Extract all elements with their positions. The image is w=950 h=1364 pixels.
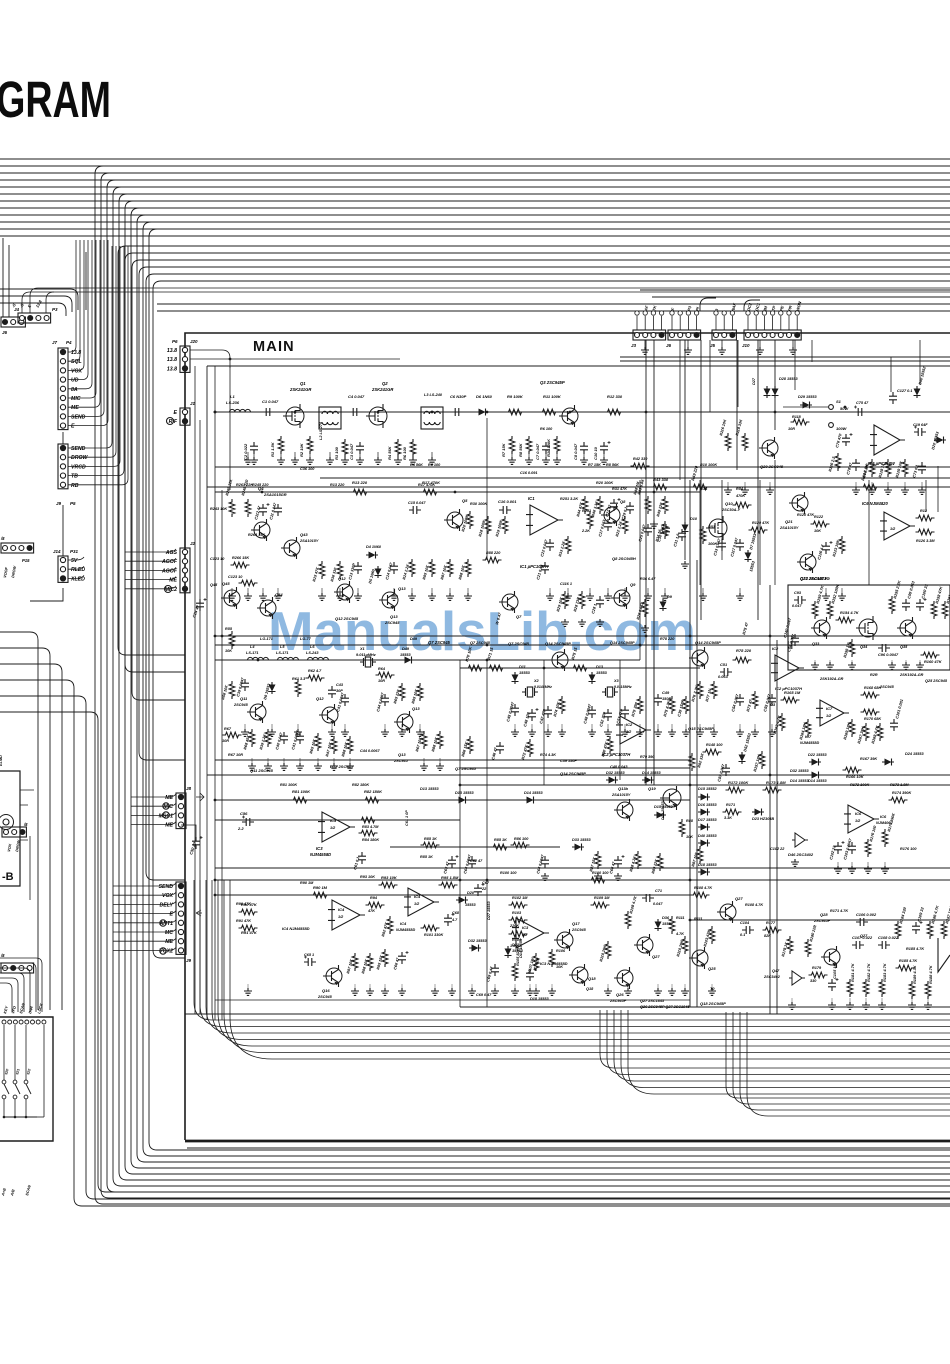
capacitor C126 4.7 [822, 542, 830, 554]
resistor R88 10K [465, 559, 471, 577]
wire horizontal above MAIN 4 [157, 310, 950, 312]
diode D14c 15553 [809, 772, 821, 779]
resistor R122 10K [811, 521, 830, 527]
wire top bus line 6 [0, 193, 950, 195]
svg-text:C30 0.047: C30 0.047 [657, 523, 666, 542]
svg-text:Q8: Q8 [620, 499, 626, 504]
resistor R61 3.3 [295, 679, 301, 697]
resistor R125 3.3M [916, 529, 935, 535]
ground Q28 block [908, 1002, 916, 1009]
wire long horizontal y=760 [215, 759, 690, 761]
wire top bus line 7 [0, 200, 950, 202]
wire mid vertical bus 1 [118, 254, 185, 655]
resistor R102 1M [509, 902, 528, 908]
wire vertical drop from top connector x=701 [700, 340, 702, 620]
wire stub to ground row C [419, 724, 421, 731]
svg-text:Q45: Q45 [210, 583, 218, 587]
wire from J20 pin 2 [190, 358, 400, 360]
capacitor C66b 47 [614, 856, 622, 868]
svg-text:DN4: DN4 [28, 1005, 34, 1014]
transistor Q12b 2SC945 [322, 707, 338, 723]
junction at 222,636 [221, 635, 224, 638]
svg-text:2SC945: 2SC945 [879, 685, 895, 689]
svg-text:J8: J8 [186, 786, 192, 791]
resistor R98 390 [869, 459, 875, 477]
svg-text:C102 22: C102 22 [770, 847, 785, 851]
ground row E [398, 988, 406, 995]
wire bundle into J2 pin 2 [125, 558, 176, 561]
svg-text:Q14 2SC945P: Q14 2SC945P [560, 771, 586, 776]
ground row E [468, 988, 476, 995]
wire stub to ground row A [397, 452, 399, 459]
ground fill A1 [541, 873, 549, 880]
wire stub to ground row C2 [423, 758, 425, 765]
wire stub to ground row C [713, 724, 715, 731]
wire left-edge bundle 6 to bottom bus [0, 712, 950, 1192]
wire stub ground Q28 block [927, 998, 929, 1004]
wire nested route 5 [218, 880, 950, 1046]
svg-text:C65 1: C65 1 [304, 953, 314, 957]
svg-text:R100 100: R100 100 [500, 871, 517, 875]
svg-text:R92 33K: R92 33K [697, 752, 705, 768]
resistor R49c 220 [662, 496, 668, 514]
wire stub to ground row B [647, 588, 649, 595]
wire long horizontal y=636 [215, 635, 950, 637]
wire nested route lower right 1 [726, 1012, 950, 1098]
svg-text:Q17: Q17 [572, 921, 580, 926]
capacitor C104 0.1 [742, 926, 754, 934]
wire stub to ground row B [277, 588, 279, 595]
terminal circle above connector J10 pin 2 [754, 311, 758, 315]
svg-text:R177: R177 [766, 921, 776, 925]
op-amp IC4 NJM4558D b [408, 888, 434, 916]
svg-text:Q22 2SC1571G: Q22 2SC1571G [800, 576, 831, 581]
diode D40 15553 [698, 840, 710, 847]
svg-text:R36 330: R36 330 [330, 566, 338, 582]
resistor R124 3.3M [916, 515, 935, 521]
diode D5 1N60 [375, 566, 382, 578]
terminal circle above connector J5 pin 1 [714, 311, 718, 315]
wire stub ground row E [401, 984, 403, 990]
transistor Q27 2SC945 [637, 937, 653, 953]
capacitor C63 47 [448, 856, 456, 868]
wire stub to ground row A [280, 452, 282, 459]
resistor R161 47K [942, 601, 948, 619]
svg-text:A+B: A+B [1, 1188, 7, 1198]
svg-text:Q26: Q26 [616, 992, 624, 997]
wire stub ground IC6 area [884, 862, 886, 868]
svg-text:C24 47: C24 47 [191, 604, 200, 619]
svg-text:LG-171: LG-171 [260, 637, 273, 641]
ground row B [604, 593, 612, 600]
svg-text:R91 47K: R91 47K [241, 930, 258, 935]
ground Q28 block [788, 1002, 796, 1009]
capacitor C3 0.047 [356, 442, 364, 454]
ground row A [277, 457, 285, 464]
IF transformer L2 LS-270 [319, 407, 341, 429]
jack symbol at J9 ANT1 pin [160, 920, 166, 926]
resistor R88b 220 [483, 557, 502, 563]
svg-text:R93 10K: R93 10K [360, 875, 375, 879]
svg-text:C49: C49 [662, 690, 670, 695]
svg-text:Q47: Q47 [772, 969, 780, 973]
wire left-edge bundle 3 [0, 664, 62, 1010]
buffer transistor Q46 2SC3402 [792, 833, 808, 847]
resistor R178 1K [787, 936, 793, 954]
ground row C [398, 729, 406, 736]
ground under top connector row [789, 347, 797, 354]
wire bundle into lower J9 pin 3 [113, 901, 176, 904]
block outline Q22 2SC1571G [788, 585, 950, 670]
svg-text:R81 100K: R81 100K [292, 789, 311, 794]
svg-text:R11 100K: R11 100K [543, 394, 562, 399]
svg-text:C123 10: C123 10 [210, 557, 225, 561]
resistor R181 4.7K [847, 979, 853, 997]
svg-text:R3 100: R3 100 [334, 446, 339, 460]
resistor R88c 10K [437, 731, 443, 749]
wire nested route 3 [206, 880, 950, 1033]
wire top bus line 9 [0, 214, 950, 216]
svg-text:Q2: Q2 [382, 381, 388, 386]
svg-text:MIC: MIC [71, 396, 81, 402]
resistor R95c 1.8M [439, 882, 458, 888]
svg-text:L4: L4 [250, 645, 255, 649]
svg-text:C17 0.043: C17 0.043 [598, 518, 607, 537]
svg-text:R102 1M: R102 1M [512, 896, 528, 900]
wire long horizontal y=775 [207, 774, 950, 776]
junction dot at 570,412 [569, 411, 572, 414]
wire pin stub connector J5 pin 1 [715, 316, 717, 330]
ground row A [356, 457, 364, 464]
svg-text:C14 0.047: C14 0.047 [385, 561, 394, 580]
svg-text:R55: R55 [225, 627, 233, 631]
transistor Q20 2SC945 [762, 440, 778, 456]
resistor R188 4.7K [925, 981, 931, 999]
wire inner bottom line 1 [185, 1013, 950, 1015]
svg-text:Q33: Q33 [812, 642, 820, 646]
wire stub to ground row C [297, 724, 299, 731]
ground row E [526, 988, 534, 995]
svg-text:R92 47K: R92 47K [381, 921, 389, 937]
svg-text:2SC945: 2SC945 [384, 620, 400, 625]
ground row C2 [248, 763, 256, 770]
svg-text:2SC945: 2SC945 [317, 995, 333, 999]
wire stub to ground row A [412, 452, 414, 459]
wire inner RF strip left border [206, 366, 208, 598]
resistor R73 15 [571, 665, 590, 671]
wire stub ground Q22 block [814, 660, 816, 664]
capacitor C69 0.47 [491, 964, 499, 976]
ground row C [621, 729, 629, 736]
wire into switch panel 3 [0, 968, 30, 1012]
resistor R62 4.7 [306, 675, 325, 681]
terminal circle above connector J3 pin 1 [635, 311, 639, 315]
junction switch rail 2 [14, 1116, 17, 1119]
ground row A [600, 457, 608, 464]
resistor R106 10K [549, 949, 555, 967]
resistor R72 47K [527, 739, 533, 757]
ground row E [366, 988, 374, 995]
resistor R170 68K [861, 709, 880, 715]
svg-text:Q7 2SC945: Q7 2SC945 [455, 766, 477, 771]
wire mid vertical bus 4 [139, 275, 185, 760]
wire stub to ground row A [528, 452, 530, 459]
transistor Q13c 2SA1015Y [617, 802, 633, 818]
svg-text:R4 56K: R4 56K [387, 445, 392, 460]
wire inner-left vertical 2 [199, 420, 201, 1014]
ground row A [341, 457, 349, 464]
wire right vertical x=891 [890, 357, 892, 392]
svg-text:R30 100K: R30 100K [470, 502, 487, 506]
wire pin stub connector J6 (top row) pin 3 [687, 316, 689, 330]
resistor R74 10K [559, 696, 565, 714]
svg-text:C71: C71 [655, 889, 662, 893]
diode D49 15553 [402, 657, 414, 664]
terminal circle above connector J10 pin 3 [762, 311, 766, 315]
svg-text:R155 2.2K: R155 2.2K [892, 579, 902, 599]
capacitor C127 0.1 [889, 392, 897, 404]
connector J8 (small, left edge) [2, 827, 26, 837]
wire right vertical x=710 [709, 340, 711, 412]
diode D33 15553 [572, 844, 584, 851]
svg-text:SCAN: SCAN [25, 1185, 32, 1197]
wire stub ground IC6 area [867, 862, 869, 868]
resistor R1 1.5K [278, 436, 284, 454]
resistor R3 100 [342, 439, 348, 457]
wire pin stub connector J3 pin 3 [652, 316, 654, 330]
svg-text:2SK192A-GR: 2SK192A-GR [899, 673, 924, 677]
jack symbol at J9 VOX2 pin [160, 948, 166, 954]
svg-text:9.0115MHz: 9.0115MHz [614, 685, 632, 689]
svg-text:R120 47K: R120 47K [797, 513, 814, 517]
junction at 654,492 [653, 491, 656, 494]
ground Q28 block [878, 1002, 886, 1009]
wire stub to ground row B [247, 588, 249, 595]
wire stub ground Q28 block [865, 998, 867, 1004]
svg-text:Q7 2SC945: Q7 2SC945 [428, 640, 451, 645]
diode D16 15553 [698, 809, 710, 816]
ground row C [528, 729, 536, 736]
wire strong vertical x=777 [776, 640, 778, 1014]
ground Q28 block [862, 1002, 870, 1009]
resistor R9 100K [506, 409, 525, 415]
ground row A right [724, 487, 732, 494]
resistor R128 1K [885, 459, 891, 477]
connector P6 / J20 [180, 346, 190, 372]
svg-text:R90 1M: R90 1M [313, 885, 328, 890]
svg-text:C103 0.0047: C103 0.0047 [843, 837, 853, 860]
svg-text:Q13b: Q13b [618, 786, 629, 791]
svg-text:D20: D20 [467, 891, 475, 895]
wire rail to right rail [37, 1116, 44, 1118]
terminal circle above connector J3 pin 4 [659, 311, 663, 315]
wire long vertical x=215 [214, 366, 216, 1020]
wire row E line 1 [215, 894, 690, 896]
svg-text:S21: S21 [15, 1068, 20, 1075]
wire stub to ground row B [393, 588, 395, 595]
svg-text:P31: P31 [70, 549, 79, 554]
wire bundle into lower J9 pin 2 [113, 892, 176, 895]
svg-text:D29 15553: D29 15553 [798, 395, 817, 399]
ground Q22 block [902, 662, 910, 669]
svg-text:R67: R67 [224, 727, 232, 731]
svg-text:R62 4.7: R62 4.7 [308, 669, 322, 673]
capacitor C1 0.047 [262, 408, 274, 416]
ground row C [558, 729, 566, 736]
ground row E [668, 988, 676, 995]
resistor R86 100 [511, 842, 530, 848]
svg-text:R101 330K: R101 330K [424, 933, 443, 937]
svg-text:13.8: 13.8 [167, 357, 177, 363]
resistor R54 470K [733, 502, 752, 508]
svg-text:D11: D11 [519, 665, 526, 669]
svg-text:P3: P3 [52, 307, 58, 312]
ground IC6 area [834, 866, 842, 873]
wire stub ground row E [627, 984, 629, 990]
svg-text:AGRAM: AGRAM [0, 71, 111, 128]
capacitor C56 2.2 [242, 818, 254, 826]
svg-text:R126 3.3M: R126 3.3M [916, 539, 935, 543]
wire mid vertical bus 6 [153, 289, 185, 958]
wire long vertical x=460 [459, 660, 461, 800]
wire bundle into J8 pin 1 [131, 794, 176, 797]
resistor R71 15 [487, 665, 506, 671]
resistor R56 10K [229, 681, 235, 699]
svg-text:R179: R179 [812, 966, 822, 970]
wire horizontal y=1000 [215, 999, 690, 1001]
wire from J7 pin 6 rising fan [68, 240, 96, 398]
capacitor C105 10 [828, 979, 836, 991]
svg-text:D10: D10 [690, 517, 698, 521]
junction switch rail 3 [25, 1116, 28, 1119]
svg-text:D24 15553: D24 15553 [905, 752, 924, 756]
wire long horizontal y=645 [215, 644, 950, 646]
svg-text:R88 10K: R88 10K [341, 741, 349, 757]
capacitor C55 0.047 [768, 694, 776, 706]
wire stub to ground row A [344, 452, 346, 459]
wire from J7 pin 7 rising fan [68, 240, 100, 407]
svg-text:D13 15553: D13 15553 [420, 787, 439, 791]
ground row B [699, 593, 707, 600]
resistor R33 2.2K [565, 536, 571, 554]
svg-text:R180 22R: R180 22R [809, 924, 817, 942]
wire bundle into lower J9 pin 7 [113, 938, 176, 941]
svg-text:LG-77: LG-77 [300, 637, 312, 641]
resistor R8 56K [526, 436, 532, 454]
junction dot at 455,492 [454, 491, 457, 494]
diode D27 15553 [764, 386, 771, 398]
terminal circle above connector J5 pin 3 [730, 311, 734, 315]
svg-text:P15: P15 [22, 558, 30, 563]
junction dot at 690,785 [689, 784, 692, 787]
capacitor C53 47P [621, 706, 629, 718]
resistor R94 47K [366, 902, 385, 908]
svg-text:Q45: Q45 [222, 581, 230, 586]
svg-text:/8: /8 [0, 536, 5, 541]
transistor Q7 2SC945 [502, 594, 518, 610]
wire stub ground row E [514, 984, 516, 990]
svg-text:R156 1K: R156 1K [842, 641, 851, 658]
capacitor C76 470 [842, 434, 850, 446]
svg-text:R184 330: R184 330 [898, 906, 907, 924]
wire row D line 1 [215, 799, 690, 801]
svg-text:R6 100: R6 100 [402, 446, 407, 460]
svg-text:R2R: R2R [870, 673, 878, 677]
svg-text:R82 180K: R82 180K [364, 789, 383, 794]
svg-text:D18 15553: D18 15553 [698, 863, 717, 867]
svg-text:R188 4.7K: R188 4.7K [928, 964, 933, 984]
wire mid vertical bus 3 [132, 268, 185, 700]
svg-text:C75 47: C75 47 [856, 401, 869, 405]
junction dot at 460,785 [459, 784, 462, 787]
svg-text:R171 4.7K: R171 4.7K [830, 909, 848, 913]
terminal circle above connector J3 pin 2 [643, 311, 647, 315]
svg-text:R12: R12 [920, 509, 928, 513]
svg-text:C16 0.001: C16 0.001 [498, 499, 517, 504]
wire strong vertical x=697 [696, 560, 698, 1007]
svg-text:AGOF: AGOF [161, 568, 178, 574]
resistor R164 10K [805, 719, 811, 737]
wire nested route lower right 2 [733, 1012, 950, 1104]
diode D18 15553 [698, 869, 710, 876]
capacitor C46 47 [496, 742, 504, 754]
capacitor C47 47P [544, 706, 552, 718]
resistor R118 10K [791, 419, 810, 425]
resistor R68b 10K [347, 736, 353, 754]
junction dot at 775,412 [774, 411, 777, 414]
svg-text:22: 22 [481, 887, 487, 891]
resistor R171 3.3K [723, 809, 742, 815]
ground row C2 [264, 763, 272, 770]
svg-text:Q16: Q16 [322, 988, 330, 993]
ground Q22 block [916, 662, 924, 669]
resistor R67 10R [223, 732, 242, 738]
wire stub ground Q28 block [881, 998, 883, 1004]
svg-text:RLED: RLED [71, 567, 85, 573]
resistor R129 10K [902, 459, 908, 477]
svg-text:L1: L1 [230, 394, 235, 399]
capacitor C64 0.0047 [468, 856, 476, 868]
svg-text:C116 1: C116 1 [560, 582, 572, 586]
resistor R83 4.7K [359, 817, 378, 823]
ground row A right [852, 487, 860, 494]
svg-text:Q13: Q13 [412, 706, 420, 711]
wire stub to ground row B [825, 588, 827, 595]
svg-text:R84 180K: R84 180K [362, 838, 379, 842]
wire stub to ground row C2 [349, 758, 351, 765]
svg-text:R10 100K: R10 100K [546, 438, 551, 457]
resistor R177 82K [763, 927, 782, 933]
svg-text:R85 1K: R85 1K [494, 838, 507, 842]
op-amp IC8 (right edge, cropped) [938, 938, 950, 972]
svg-text:R77 1N: R77 1N [704, 688, 712, 702]
svg-text:2SK192A-GR: 2SK192A-GR [819, 677, 844, 681]
svg-text:R251 3.2K: R251 3.2K [560, 497, 578, 501]
wire horizontal right y=357 [620, 356, 950, 358]
transistor Q28 2SC945P [824, 949, 840, 965]
wire stub to ground row C [331, 724, 333, 731]
ground row A [291, 457, 299, 464]
svg-text:C22 0.047: C22 0.047 [540, 538, 549, 557]
wire vertical x=460 lower [459, 800, 461, 1007]
wire stub to ground row A [329, 452, 331, 459]
junction dot at 262,492 [261, 491, 264, 494]
wire stub ground Q28 block [791, 998, 793, 1004]
svg-text:2.2: 2.2 [237, 826, 244, 831]
svg-text:10R: 10R [788, 427, 795, 431]
wire nested route 1 [194, 880, 950, 1020]
svg-text:2SC3402: 2SC3402 [763, 975, 781, 979]
